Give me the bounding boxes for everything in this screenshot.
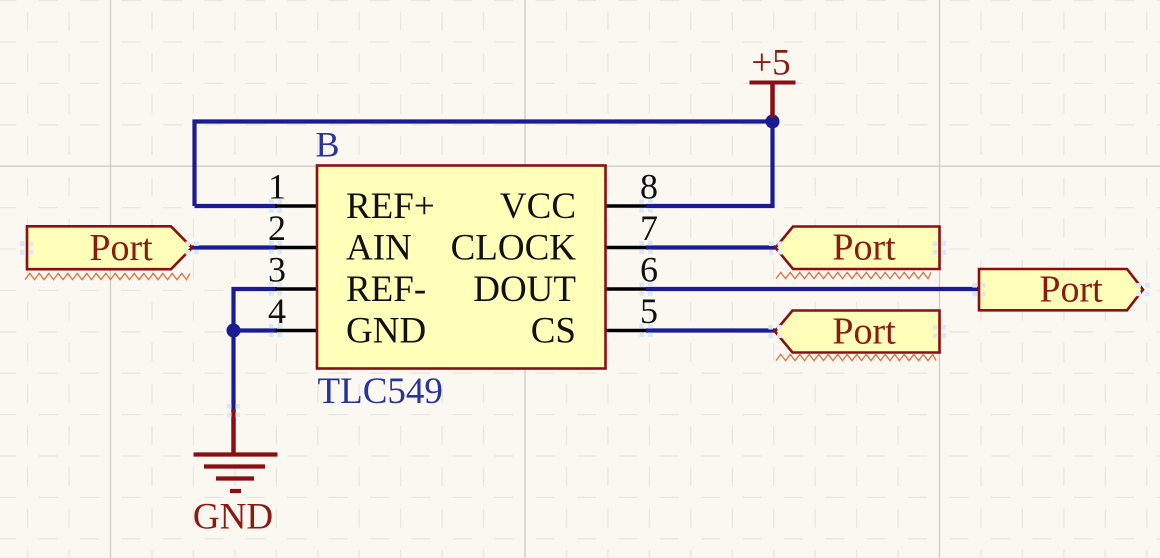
op-amp U1 : component B TLC549 body <box>317 166 606 369</box>
svg-text:VCC: VCC <box>500 186 576 227</box>
svg-text:Port: Port <box>1039 269 1103 311</box>
node marker gnd wire end <box>227 404 232 409</box>
ground bar 3 <box>216 476 254 480</box>
node marker pin 5 junction <box>639 324 644 329</box>
wire pin5 to Port <box>646 328 776 332</box>
svg-text:CLOCK: CLOCK <box>451 228 577 269</box>
svg-text:TLC549: TLC549 <box>318 371 443 412</box>
node marker pin 3 junction <box>269 282 274 287</box>
node marker pin 1 junction <box>269 199 274 204</box>
node marker port CLOCK right <box>933 241 938 246</box>
port AIN (left) <box>27 226 192 269</box>
svg-text:AIN: AIN <box>346 228 412 269</box>
svg-text:REF+: REF+ <box>346 186 435 227</box>
svg-text:+5: +5 <box>751 43 790 84</box>
wire pin4 GND <box>234 328 278 332</box>
wire pin1 <box>195 204 278 208</box>
pin 5 line <box>605 329 647 333</box>
node marker port DOUT tip <box>1136 283 1141 288</box>
wire pin3 REF- <box>234 289 278 412</box>
node marker port CS tip <box>768 325 773 330</box>
svg-text:B: B <box>316 125 340 165</box>
svg-text:DOUT: DOUT <box>473 269 576 310</box>
wire pin8 to +5 <box>646 122 773 207</box>
wire pin2 from left Port <box>191 245 277 249</box>
node marker pin 7 junction <box>639 241 644 246</box>
svg-text:GND: GND <box>346 311 426 352</box>
node marker port CLOCK tip <box>769 241 774 246</box>
svg-text:CS: CS <box>531 311 576 352</box>
ground stem <box>231 410 236 455</box>
ground bar 4 <box>230 489 241 493</box>
pin 6 line <box>605 287 647 291</box>
node marker pin 2 junction <box>269 241 274 246</box>
junction at +5 node <box>766 115 780 129</box>
wire pin6 DOUT to right Port <box>646 287 979 291</box>
compile-error squiggle under port AIN <box>25 273 190 279</box>
svg-text:Port: Port <box>832 311 896 353</box>
ground bar 1 <box>194 452 278 456</box>
port CLOCK <box>776 227 940 270</box>
power +5 stem <box>770 83 775 119</box>
node marker pin 4 junction <box>269 324 274 329</box>
pin 4 line <box>276 329 319 333</box>
svg-text:REF-: REF- <box>346 269 426 310</box>
svg-text:Port: Port <box>89 227 153 269</box>
svg-text:Port: Port <box>832 227 896 269</box>
pin 3 line <box>276 287 319 291</box>
pin 7 line <box>605 246 647 250</box>
node marker port CS right <box>933 325 938 330</box>
wire: loop pin1 to +5 node <box>195 122 773 207</box>
ground bar 2 <box>204 464 265 468</box>
node marker pin 6 junction <box>639 282 644 287</box>
compile-error squiggle under port CLOCK <box>776 272 931 278</box>
pin 2 line <box>276 246 319 250</box>
svg-text:GND: GND <box>193 497 273 538</box>
power +5 symbol bar <box>750 81 796 85</box>
node marker pin 8 junction <box>639 199 644 204</box>
port DOUT (right) <box>979 269 1143 310</box>
compile-error squiggle under port CS <box>776 354 936 360</box>
node marker port DOUT left <box>972 283 977 288</box>
junction at GND net <box>227 324 241 338</box>
pin 8 line <box>605 204 647 208</box>
pin 1 line <box>276 204 319 208</box>
port CS <box>775 311 940 353</box>
node marker left port outer <box>20 241 25 246</box>
wire pin7 to Port <box>646 245 776 249</box>
node marker left port tip <box>185 241 190 246</box>
